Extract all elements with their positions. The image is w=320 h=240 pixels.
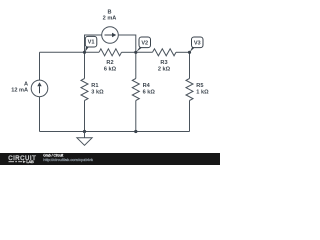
node V1 label [85, 36, 97, 52]
label R2 6 kOhm [104, 60, 117, 72]
wire R5 to bottom wire [189, 101, 191, 132]
svg-text:2 kΩ: 2 kΩ [158, 67, 171, 73]
wire node V1 down to R1 [84, 52, 86, 78]
junction dot bottom R1 [83, 130, 86, 133]
wire current source A bottom lead [39, 97, 41, 132]
svg-text:1 kΩ: 1 kΩ [196, 90, 209, 96]
ground [77, 132, 92, 146]
svg-text:V1: V1 [88, 40, 95, 46]
junction dot bottom R4 [134, 130, 137, 133]
svg-text:12 mA: 12 mA [11, 87, 28, 93]
CircuitLab logo [8, 156, 36, 164]
resistor R1 [81, 79, 88, 101]
current source B [102, 27, 119, 44]
wire R3 to node V3 [176, 51, 190, 53]
resistor R5 [186, 79, 193, 101]
svg-text:V2: V2 [141, 40, 148, 46]
label R5 1 kOhm [196, 83, 209, 95]
svg-text:2 mA: 2 mA [103, 16, 117, 22]
svg-text:6 kΩ: 6 kΩ [104, 67, 117, 73]
node V3 label [190, 37, 203, 52]
svg-text:R1: R1 [91, 83, 98, 89]
label A 12 mA [11, 81, 28, 93]
wire node V1 up to current source B left lead [85, 35, 102, 52]
svg-text:R2: R2 [106, 60, 113, 66]
junction dot V1 node [83, 51, 86, 54]
svg-text:R5: R5 [196, 83, 203, 89]
footer bar [0, 153, 220, 165]
label R1 3 kOhm [91, 83, 104, 95]
svg-text:3 kΩ: 3 kΩ [91, 90, 104, 96]
junction dot V3 node [188, 51, 191, 54]
wire R4 to bottom wire [135, 101, 137, 132]
node V2 label [136, 37, 150, 52]
svg-text:R3: R3 [160, 60, 167, 66]
wire current source B right lead down to node V2 [118, 35, 136, 52]
svg-text:LAB: LAB [26, 159, 34, 164]
svg-text:6 kΩ: 6 kΩ [143, 90, 156, 96]
label R3 2 kOhm [158, 60, 171, 72]
wire R1 to bottom wire [84, 101, 86, 132]
resistor R3 [153, 49, 177, 56]
svg-text:V3: V3 [194, 40, 201, 46]
junction dot V2 node [134, 51, 137, 54]
wire node V2 to R3 [136, 51, 153, 53]
wire left branch top: mid wire down to current source A [39, 52, 41, 80]
wire node V3 down to R5 [189, 52, 191, 78]
svg-text:http://circuitlab.com/cpzbtvk: http://circuitlab.com/cpzbtvk [43, 157, 94, 162]
label R4 6 kOhm [143, 83, 156, 95]
current source A [31, 80, 48, 97]
wire R2 to node V2 [122, 51, 136, 53]
resistor R4 [132, 79, 139, 101]
wire middle left: A corner to R2 [40, 51, 100, 53]
label B 2 mA [103, 10, 117, 22]
wire bottom rail [40, 131, 190, 133]
svg-text:R4: R4 [143, 83, 151, 89]
wire node V2 down to R4 [135, 52, 137, 78]
resistor R2 [99, 49, 122, 56]
